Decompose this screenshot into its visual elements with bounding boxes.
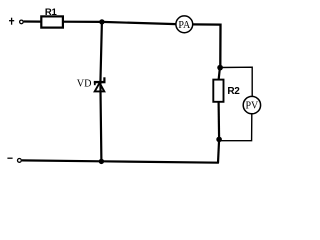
svg-text:PV: PV <box>246 101 260 112</box>
resistor R2 <box>213 80 223 102</box>
minus terminal label <box>7 157 12 159</box>
wire bottom <box>22 160 219 162</box>
svg-text:VD: VD <box>77 79 92 90</box>
wire PV branch bottom <box>220 114 252 141</box>
ammeter PA <box>176 16 193 33</box>
terminal - <box>18 159 22 163</box>
wire <box>218 102 221 140</box>
voltmeter PV <box>243 96 260 113</box>
wire <box>218 139 219 163</box>
node A junction <box>99 19 104 24</box>
wire <box>24 20 42 22</box>
wire vertical VD branch <box>100 22 102 162</box>
wire <box>63 21 102 23</box>
zener diode VD <box>94 77 106 91</box>
wire <box>193 24 221 67</box>
svg-text:PA: PA <box>178 20 191 31</box>
wire <box>219 68 220 80</box>
resistor R1 <box>41 16 63 27</box>
svg-text:R2: R2 <box>227 86 240 97</box>
terminal + <box>20 20 24 24</box>
node D junction <box>99 159 104 164</box>
wire PV branch top <box>221 67 253 96</box>
svg-text:R1: R1 <box>45 7 58 18</box>
node C junction <box>216 137 222 143</box>
wire <box>102 22 176 24</box>
node B junction <box>217 65 223 71</box>
plus terminal label <box>9 18 14 25</box>
